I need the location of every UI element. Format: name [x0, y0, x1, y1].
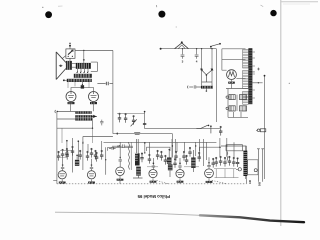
left return drop	[61, 128, 63, 143]
power transformer primary winding	[243, 50, 249, 69]
speaker field tap dot	[289, 83, 290, 84]
capacitor 4 below bus	[195, 49, 199, 59]
paper speck 1	[42, 7, 43, 8]
V7 capacitors row	[174, 151, 177, 160]
gang link diagonal V8	[212, 180, 227, 183]
tube V5 224	[116, 167, 125, 176]
band link wire 5	[60, 149, 73, 151]
right terminals verticals	[258, 149, 262, 182]
wire transformer right side	[91, 62, 98, 71]
interstage transformer winding lower	[75, 115, 92, 120]
RF input coil left leg	[201, 49, 203, 86]
V6 capacitors row	[156, 150, 159, 159]
V8 bottom wire	[208, 178, 210, 181]
field coil to driver wire	[69, 58, 71, 61]
coupling capacitor C-a	[100, 120, 103, 126]
T1 pins below	[78, 69, 89, 72]
IF transformer 2 upper	[167, 158, 172, 164]
extra band capacitor d	[164, 155, 167, 164]
band return wire 6	[215, 169, 239, 178]
field coil box	[66, 49, 75, 58]
capacitor 3 below bus	[181, 49, 185, 59]
screen feed wire	[83, 137, 113, 144]
left rail vertical	[56, 112, 58, 184]
resistor strip left terminal	[63, 79, 65, 81]
wire field coil lower left stub	[62, 56, 66, 59]
tube V7 227	[176, 170, 184, 178]
IF2 wires	[168, 150, 171, 177]
shield box stage3 top	[108, 148, 134, 151]
chassis top line upper	[104, 141, 217, 143]
IF1 wires	[133, 139, 143, 178]
IF transformer 1 upper	[135, 153, 140, 165]
rail A horizontal	[145, 128, 220, 130]
antenna bus left terminal	[160, 48, 162, 50]
V5 left stub capacitor	[109, 147, 116, 150]
coil top plate	[202, 81, 212, 83]
V5 grid line tall	[119, 142, 122, 167]
V4 grid cap	[91, 164, 93, 166]
stage6 verticals	[220, 138, 234, 157]
interstage transformer winding upper	[75, 111, 91, 114]
band link wire 2	[147, 166, 158, 168]
V1 label 245	[68, 102, 75, 104]
band junction dots	[226, 145, 227, 146]
extra band capacitor b	[95, 152, 98, 161]
tube V4 224	[87, 171, 95, 179]
V7 bottom wire	[179, 178, 181, 184]
capacitor at rail A right	[219, 126, 222, 135]
T1 top terminal dot	[83, 59, 85, 61]
filter capacitor C-c	[124, 113, 127, 122]
stage2 cap	[100, 150, 103, 159]
lower horizontal rail B	[113, 133, 172, 135]
stage5 caps left	[188, 147, 191, 156]
paper speck 3	[156, 5, 158, 7]
RF input coil right leg	[211, 49, 213, 86]
capacitor 5 and input terminal	[189, 85, 201, 88]
stage1 coil box	[75, 160, 79, 166]
stage3 mid verticals	[145, 142, 150, 156]
stage1 small caps row	[65, 148, 68, 157]
punch-hole dot right	[270, 10, 276, 16]
rectifier wiring loop	[222, 49, 246, 79]
volume control resistor tall	[243, 151, 247, 176]
V3 grid cap	[62, 164, 64, 166]
filter capacitor C-b	[118, 113, 121, 122]
paper speck 2	[58, 5, 63, 7]
tube V6 224	[149, 170, 157, 178]
wire field coil to right rail	[75, 50, 113, 52]
antenna symbol	[175, 43, 189, 49]
stage1 verticals	[67, 138, 83, 173]
V4 bottom wire	[91, 180, 93, 184]
driver to T1 wires	[72, 64, 76, 68]
power transformer filament winding	[243, 92, 249, 105]
detector arrow	[93, 115, 98, 117]
output tube V2 245	[89, 92, 99, 102]
band link wire 3	[184, 166, 199, 168]
V6 bottom wire	[152, 178, 154, 181]
shield box stage6 top	[199, 147, 221, 151]
page bottom edge line	[55, 212, 200, 215]
shield box corner right	[226, 145, 243, 151]
bias resistor R-d	[240, 106, 247, 111]
converging leads	[202, 70, 212, 82]
speaker hub dot	[60, 65, 62, 67]
wire band right link	[226, 150, 243, 152]
V2 label 245	[90, 102, 97, 104]
grid return wire	[57, 118, 75, 120]
coil base bottom dot	[206, 90, 208, 92]
V7 grid cap	[179, 162, 181, 164]
plate bypass wire with capacitor	[97, 83, 113, 85]
output jack box	[248, 160, 258, 175]
punch-hole dot left	[45, 11, 52, 18]
tone capacitor variable	[132, 115, 135, 124]
antenna switch	[210, 46, 212, 48]
interstage shield box	[92, 128, 94, 143]
V3 bottom wire	[53, 180, 62, 184]
antenna bus wire	[161, 48, 217, 50]
page right edge line	[280, 0, 282, 226]
bias resistor R-a	[229, 95, 235, 100]
main B+ rail vertical	[112, 51, 114, 134]
wire caps top bus	[117, 112, 145, 114]
power transformer hv secondary winding	[243, 71, 249, 89]
extra band capacitor c	[140, 153, 143, 162]
svg-text:508: 508	[258, 181, 261, 186]
wire terminal to field coil	[69, 47, 71, 49]
oscillator coil zigzag	[129, 142, 130, 169]
detector stage wire drops	[196, 139, 207, 166]
tube V8 227	[205, 169, 214, 178]
V6 grid cap	[153, 162, 155, 164]
V8 grid cap	[208, 162, 210, 164]
rail B drop	[171, 134, 173, 158]
choke pin dots top	[76, 72, 77, 73]
svg-text:440: 440	[249, 179, 252, 184]
wire left terminal to interstage	[57, 111, 75, 113]
V3 right capacitor	[66, 150, 69, 159]
V3 top capacitor	[61, 149, 64, 158]
pilot lamp	[238, 168, 241, 171]
extra band capacitor a	[79, 150, 82, 159]
B+ right rail	[264, 76, 266, 179]
V5 bottom wire	[119, 176, 121, 184]
output tube V1 245	[66, 92, 76, 102]
transformer right side taps	[252, 52, 262, 98]
svg-text:Philco Model 95: Philco Model 95	[137, 194, 170, 199]
audio coupling coil	[227, 151, 228, 161]
band right top wire	[221, 145, 246, 147]
component on rail B	[134, 133, 140, 135]
wires tubes down to interstage	[71, 102, 94, 112]
extra band capacitor f	[185, 155, 188, 164]
IF transformer 2 lower	[168, 164, 173, 170]
tube V3 224	[58, 171, 66, 179]
shield box stage4 top	[147, 147, 170, 151]
stage6 caps cluster	[215, 157, 218, 166]
band link wire 1	[59, 156, 68, 158]
input terminal	[54, 110, 57, 113]
plus mark above terminal	[69, 42, 71, 44]
neighboring page top edge line	[281, 1, 318, 3]
paper speck 5	[176, 27, 177, 28]
terminal dot top of field coil	[69, 45, 71, 47]
divider resistor on right rail	[257, 129, 260, 132]
punch-hole dot middle	[158, 11, 165, 18]
resistor strip drop wires	[68, 82, 89, 88]
bias network wires	[226, 89, 252, 118]
rail A right components: on-off switch	[196, 125, 207, 128]
rectifier tube 280	[227, 70, 237, 80]
coil tap dot left	[201, 68, 203, 70]
cathode return wire	[57, 121, 93, 129]
rail A left component stack	[144, 112, 146, 129]
stage2 verticals	[88, 141, 106, 175]
bus junction dots	[196, 48, 197, 49]
output transformer T1	[76, 63, 91, 69]
bus end drop wire	[215, 49, 217, 122]
V4 capacitors	[86, 151, 89, 160]
extra band capacitor g	[212, 158, 215, 167]
stage4 verticals	[172, 139, 184, 158]
speaker cone	[56, 52, 66, 80]
right band rail vertical	[245, 146, 247, 184]
speaker driver box	[66, 61, 72, 70]
bias resistor R-c	[229, 106, 235, 111]
band link wire 4	[214, 168, 236, 170]
paper speck 4	[261, 5, 264, 7]
RF coil base bar	[201, 86, 213, 89]
power transformer core	[248, 48, 252, 104]
IF transformer 1 lower	[136, 167, 141, 176]
V3 left capacitor	[57, 151, 60, 160]
choke winding bar	[74, 74, 92, 78]
junction tick on rail B	[116, 132, 118, 134]
push-pull top wires	[71, 88, 94, 92]
center bias component	[81, 85, 84, 88]
gang dashed line	[57, 183, 247, 185]
gang link diagonal V6	[157, 180, 169, 183]
hv plus mark	[252, 68, 260, 72]
resistor strip bar	[67, 79, 92, 82]
detector coil box	[191, 158, 195, 168]
bias resistor R-b	[240, 95, 247, 100]
extra band capacitor e	[173, 158, 176, 167]
coil tap dot right	[211, 68, 213, 70]
wire T1 terminal up to rail	[83, 51, 85, 63]
